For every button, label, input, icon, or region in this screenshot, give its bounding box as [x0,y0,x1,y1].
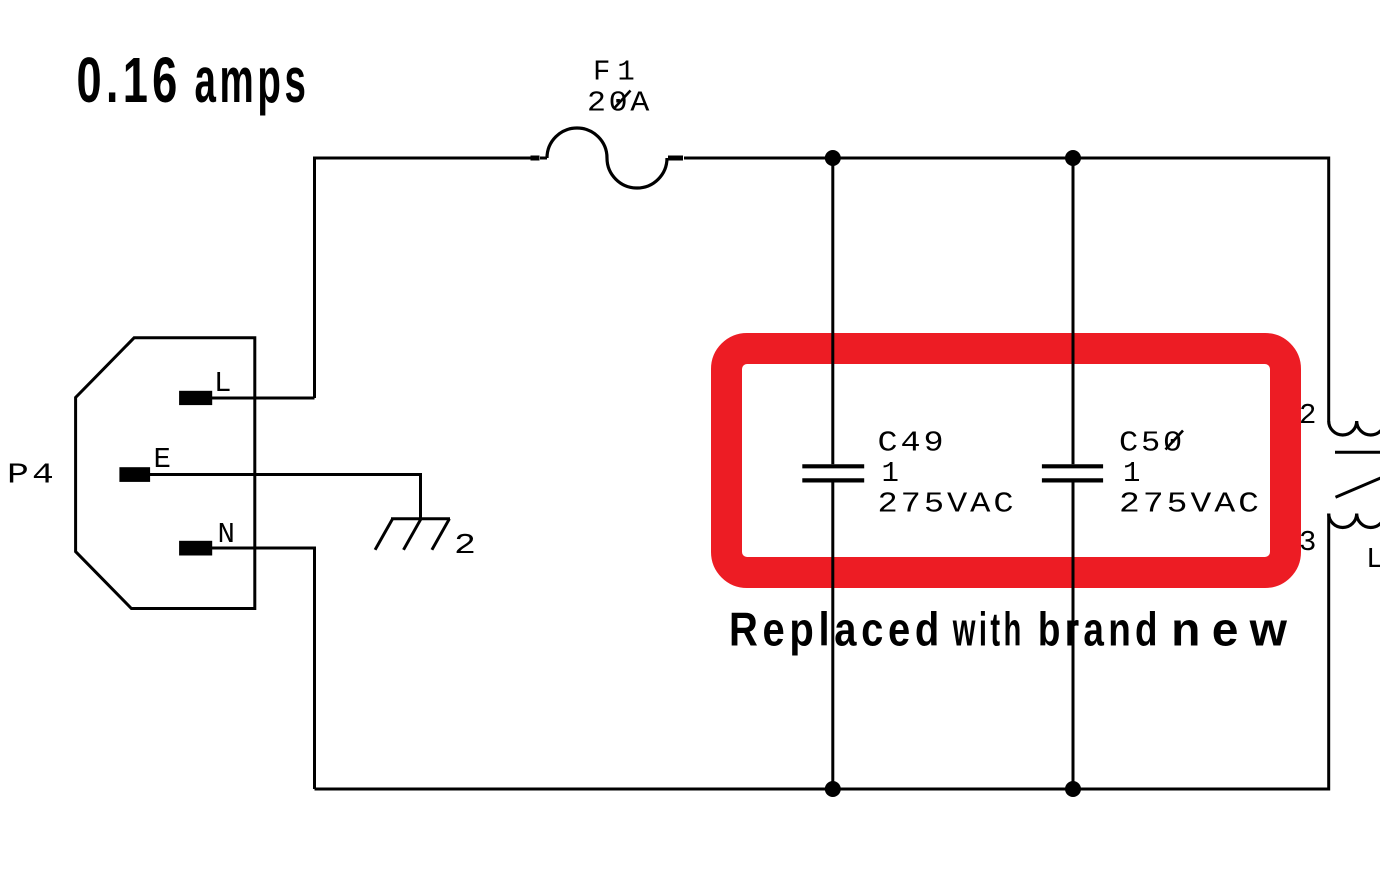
junction dot top C49 [825,150,841,166]
junction dot top C50 [1065,150,1081,166]
ground symbol bar [391,517,450,520]
svg-text:C49: C49 [878,426,947,459]
svg-text:N: N [218,518,235,551]
slash of zero in 20A [614,91,631,110]
pin N pad [179,541,212,556]
svg-text:E: E [154,443,171,476]
wire top-left horizontal (plug L to fuse) [315,157,532,160]
svg-text:1: 1 [1123,457,1140,490]
capacitor C50 bottom lead wire [1072,483,1075,790]
capacitor C50 bottom plate [1042,478,1103,482]
pin L pad [179,391,212,405]
svg-text:275VAC: 275VAC [878,487,1017,520]
capacitor C50 top lead wire [1072,158,1075,464]
slash of zero in C50 [1166,431,1184,450]
wire N pin to bottom left vertical [212,548,315,789]
choke L winding top [1329,421,1380,435]
capacitor C49 bottom plate [802,478,864,482]
junction dot bottom C49 [825,781,841,797]
svg-text:0.16: 0.16 [77,44,182,116]
capacitor C50 top plate [1042,464,1103,468]
junction dot bottom C50 [1065,781,1081,797]
choke L winding bottom [1329,514,1380,528]
svg-text:2: 2 [454,529,476,562]
svg-text:amps: amps [195,44,310,116]
capacitor C49 bottom lead wire [831,483,834,790]
ground stroke 1 [375,519,393,550]
wire E pin to ground [150,475,421,519]
capacitor C49 top plate [802,464,864,468]
choke core line 2 [1336,477,1380,497]
svg-text:P4: P4 [7,458,57,491]
ground stroke 3 [432,519,450,550]
pin E pad [119,467,150,482]
svg-text:F1: F1 [593,56,642,89]
svg-text:brand: brand [1038,602,1162,655]
wire left vertical (L up to top) [313,157,316,399]
wire top horizontal (fuse to right corner) [684,157,1329,160]
wire fuse left stub [540,157,547,160]
svg-text:C50: C50 [1119,426,1185,459]
fuse F1 body [547,128,667,188]
svg-text:with: with [952,602,1025,655]
wire bottom horizontal [315,788,1329,791]
svg-text:2: 2 [1299,399,1316,432]
svg-text:Replaced: Replaced [729,602,944,655]
fuse F1 right pin tick [668,156,683,161]
svg-text:new: new [1171,602,1298,655]
ground stroke 2 [404,519,422,550]
svg-text:L: L [214,367,231,400]
svg-text:3: 3 [1299,526,1316,559]
wire L pin to left vertical [212,397,315,400]
svg-text:275VAC: 275VAC [1119,487,1262,520]
choke core line 1 [1335,451,1380,454]
fuse F1 left pin tick [531,156,540,161]
svg-text:1: 1 [882,457,899,490]
red highlight box (replaced parts) [727,349,1286,573]
svg-text:L: L [1366,543,1380,576]
plug P4 outline [76,338,255,609]
wire right vertical bottom (choke pin 3 to bottom) [1327,514,1330,791]
capacitor C49 top lead wire [831,158,834,464]
wire right vertical top (to choke pin 2) [1327,157,1330,422]
